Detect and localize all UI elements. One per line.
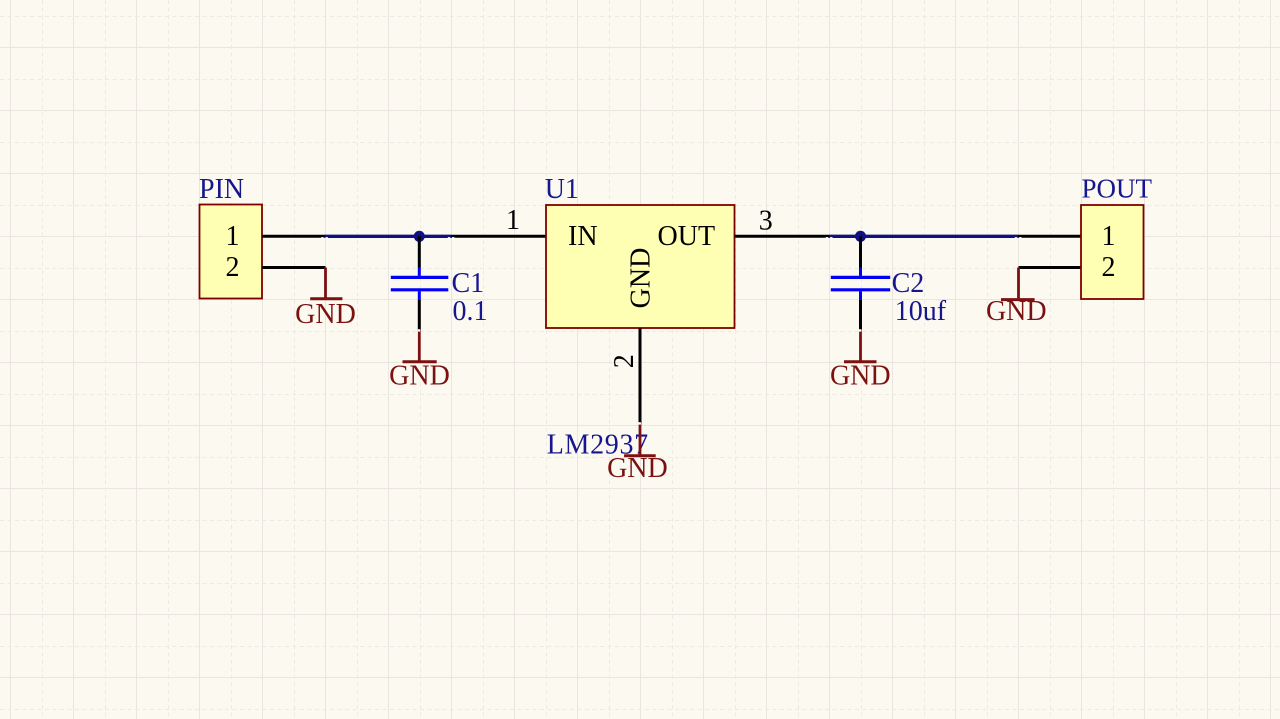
svg-text:GND: GND [389,361,450,392]
connector PIN body [200,205,263,299]
wire PIN.1 to net (black segment) [262,235,325,238]
svg-text:GND: GND [295,299,356,330]
capacitor C1 [391,268,449,300]
svg-text:POUT: POUT [1082,174,1153,204]
wire U1.GND down (black) [639,328,642,423]
svg-text:2: 2 [1102,252,1116,283]
connector POUT body [1081,205,1144,299]
capacitor C2 [831,268,890,300]
svg-text:10uf: 10uf [895,296,947,327]
svg-text:GND: GND [986,296,1047,327]
wire POUT.2 ground stub (black) [1019,266,1082,269]
ground GND at C1 [403,330,437,362]
svg-text:GND: GND [607,453,668,484]
svg-text:1: 1 [1102,221,1116,252]
svg-text:IN: IN [568,221,598,252]
wire junction to C1 (black) [418,236,421,267]
svg-text:2: 2 [609,354,640,368]
wire net VOUT (navy segment) [829,235,1018,238]
junction node VIN [414,231,425,242]
wire to U1 IN (black segment) [451,235,546,238]
svg-text:U1: U1 [545,174,579,205]
svg-text:OUT: OUT [658,221,716,252]
ground GND at U1 [624,423,656,456]
svg-text:2: 2 [226,252,240,283]
ground GND at POUT.2 [1001,268,1035,300]
svg-text:C2: C2 [892,268,925,299]
wire net VIN (navy segment) [325,235,452,238]
regulator U1 body [546,205,735,328]
pin end markers (white dots) [321,237,1021,425]
svg-text:PIN: PIN [199,174,244,205]
wire PIN.2 to ground (black) [262,266,326,269]
svg-text:GND: GND [830,361,891,392]
junction node VOUT [855,231,866,242]
wire to POUT.1 (black) [1018,235,1081,238]
ground GND at C2 [844,330,877,362]
wire U1.OUT to net (black) [735,235,830,238]
svg-text:GND: GND [626,248,657,309]
svg-text:1: 1 [506,205,520,236]
svg-text:3: 3 [759,205,773,236]
wire C2 to ground (black) [859,299,862,330]
svg-text:C1: C1 [452,268,485,299]
wire junction to C2 (black) [859,236,862,267]
wire C1 to ground (black) [418,299,421,330]
svg-text:0.1: 0.1 [453,296,488,327]
ground GND at PIN.2 [310,268,342,299]
svg-text:1: 1 [226,221,240,252]
